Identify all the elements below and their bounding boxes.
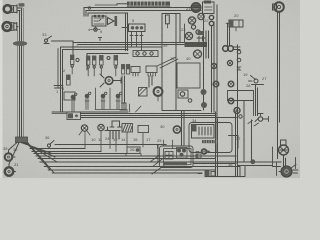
wires to wiper row — [126, 13, 128, 51]
fuse F1 — [71, 55, 74, 67]
main harness line y166 — [44, 165, 236, 167]
flasher relay — [139, 88, 148, 97]
terminal under relay — [91, 26, 101, 31]
socket 22c — [194, 50, 202, 58]
dash feed bundle — [73, 42, 206, 44]
horn 21 — [191, 3, 200, 12]
headlamp 2 — [3, 22, 17, 31]
bulb 20a — [198, 13, 204, 19]
wire 184 — [184, 24, 186, 42]
parking lamp 32 — [5, 167, 16, 175]
stop-lamp switch — [47, 141, 54, 149]
tiny labels row — [91, 136, 162, 152]
relay cluster inner box — [164, 149, 192, 165]
cluster feed stubs — [164, 140, 173, 149]
panel lamp 2 — [85, 92, 91, 109]
dimmer box — [52, 112, 81, 120]
voltage regulator — [192, 125, 215, 139]
right riser wire — [236, 45, 238, 176]
toggle switch 33 — [44, 36, 73, 54]
relay cluster rounded box — [160, 146, 194, 168]
regulator rounded box — [189, 123, 232, 153]
parking lamp 31 — [5, 153, 15, 161]
lamp cell dividers — [95, 88, 126, 110]
diag wires box B — [157, 57, 178, 68]
fuse F5 — [100, 56, 104, 69]
horn 18 top right — [273, 2, 284, 12]
turn signal switch — [249, 76, 264, 85]
paper background — [0, 0, 300, 180]
generator bay lines — [273, 147, 296, 176]
ticks on right wires — [248, 121, 259, 127]
scan edge bottom — [0, 178, 300, 180]
main harness line y174 — [52, 172, 202, 174]
wire headlamp1 to loom — [17, 8, 22, 11]
instrument box B — [162, 14, 201, 111]
fan wire 3 — [21, 143, 52, 154]
horn — [108, 16, 118, 26]
indicator bulb c5 — [228, 98, 234, 104]
terminal 13 — [76, 58, 79, 61]
generator cap — [281, 140, 287, 145]
dash panel box A — [52, 47, 162, 112]
generator leads — [238, 150, 286, 172]
junction box corner — [229, 136, 239, 149]
corner terminal dot — [88, 7, 90, 9]
lever symbol 1 — [54, 49, 63, 89]
bulb holder b2 — [98, 124, 104, 134]
connector block K2 — [146, 66, 157, 76]
panel lamp 4 — [116, 92, 122, 109]
panel lamp 3 — [101, 92, 107, 109]
panel lower triple wires — [81, 114, 237, 118]
fan wire 4 — [23, 143, 55, 158]
starter comb strip — [202, 140, 218, 143]
tiny labels misc — [3, 6, 267, 167]
indicator bulb c3 — [213, 81, 219, 87]
fuse F8 — [127, 65, 130, 75]
fuel gauge — [166, 15, 170, 28]
small rings right — [191, 25, 195, 29]
indicator bulb c2 — [227, 60, 232, 65]
loom top cap — [19, 3, 25, 6]
cutout relay — [165, 152, 173, 160]
dash sub-box right — [228, 91, 254, 116]
regulator box top — [203, 1, 215, 14]
main harness line y158 — [38, 158, 216, 160]
wiper switch row — [133, 51, 158, 57]
small fuse box — [196, 154, 201, 158]
loom connector block — [16, 137, 28, 143]
indicator bulb c1 — [211, 63, 216, 68]
fuse F7 — [122, 65, 125, 75]
fan wire 5 — [25, 143, 57, 163]
horn feed bend — [84, 8, 201, 17]
bracket component — [110, 121, 122, 127]
main harness line y148 — [30, 148, 85, 150]
fan wire 6 — [27, 143, 51, 170]
starter — [281, 165, 298, 177]
ignition coil lower — [173, 126, 180, 133]
connector block K1 — [131, 67, 140, 77]
terminal small — [239, 115, 242, 118]
ground cluster — [198, 171, 215, 177]
fuse strip lead — [117, 4, 127, 5]
wire drop x158 — [157, 146, 159, 163]
scan noise overlay — [0, 0, 1, 1]
cluster dark bar — [164, 162, 187, 165]
small instrument circles right — [237, 50, 241, 70]
main harness line y151 — [32, 151, 101, 153]
resistor block dots — [177, 148, 188, 159]
terminal tee — [99, 38, 102, 41]
fuse F3 — [87, 56, 90, 68]
socket 22a — [188, 17, 195, 24]
terminal 6 — [107, 57, 110, 60]
fuse F4 — [93, 56, 96, 68]
top fuse strip — [127, 2, 170, 7]
connector comb — [105, 127, 120, 139]
ignition switch — [100, 74, 121, 87]
wires down middle — [122, 76, 152, 102]
cluster link diagonals — [150, 155, 164, 174]
headlamp 1 — [4, 5, 17, 13]
indicator bulb c4 — [228, 81, 234, 87]
generator — [279, 145, 289, 155]
bottom nested corners — [193, 164, 245, 177]
fan wire to lamp 31 — [9, 143, 18, 154]
fuse lead stubs — [72, 67, 116, 76]
lamp 15 — [234, 108, 240, 114]
main harness line y156 — [36, 155, 236, 157]
main harness line y153 — [34, 153, 127, 155]
fuse F2 — [67, 75, 71, 85]
small connector cluster — [120, 103, 141, 112]
fan wire to lamp 32 — [9, 143, 19, 168]
wire end blob — [250, 159, 255, 164]
junction block marks — [197, 31, 205, 44]
fuse row box — [87, 54, 128, 71]
terminal under box C — [188, 99, 192, 103]
speedo cable dark bar — [185, 42, 208, 47]
front harness loom — [17, 8, 24, 138]
small box 16 — [138, 126, 149, 133]
top right horn wire — [278, 12, 280, 159]
wires into coil — [182, 111, 185, 147]
turn switch wires down — [244, 85, 258, 162]
stop cock symbol — [255, 114, 269, 122]
scan edge left — [0, 0, 3, 180]
hatched resistor — [122, 124, 133, 133]
socket 22b — [185, 32, 192, 39]
bulb 20b — [209, 15, 213, 19]
bulb 20c — [209, 21, 213, 25]
wire headlamp2 to loom — [17, 26, 19, 28]
lower triple wires right verticals — [216, 112, 218, 176]
main harness line y162 — [40, 161, 281, 163]
clock gauge — [154, 87, 163, 101]
bulb holder b1 — [79, 125, 90, 135]
horn relay — [92, 15, 106, 26]
bulb pair mid right — [223, 46, 240, 52]
thermal switch 26 — [126, 147, 141, 156]
dark blob d1 — [201, 89, 207, 95]
relay box 3 — [64, 92, 75, 100]
loom grommet — [13, 41, 27, 46]
upper feed line y5 — [95, 4, 117, 6]
main harness line y144 — [55, 144, 166, 146]
gauge in box — [178, 90, 188, 98]
fuel tank sender — [226, 20, 243, 31]
wire stems bottom center — [85, 132, 166, 152]
wires down from coil cluster — [204, 5, 230, 152]
lighting switch — [122, 24, 145, 51]
speedometer box C — [177, 63, 200, 88]
main harness line y170 — [48, 169, 215, 171]
fuse F6 — [114, 56, 118, 69]
panel lamp 1 — [71, 93, 77, 112]
dark blob d2 — [201, 102, 207, 108]
fan wire 7 — [28, 143, 55, 173]
starter button bullet — [196, 148, 211, 155]
